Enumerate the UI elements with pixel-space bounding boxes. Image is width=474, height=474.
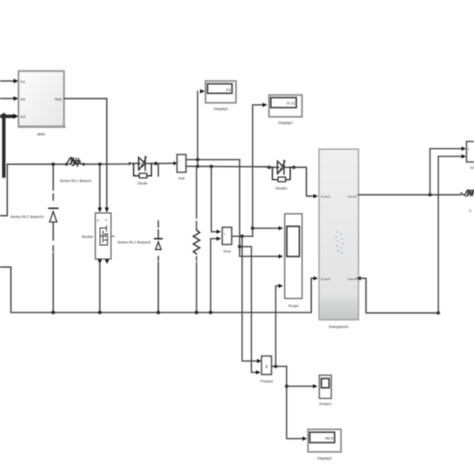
svg-text:Diode: Diode <box>138 182 148 186</box>
wire to Vmeas in1 <box>430 147 466 195</box>
wire voltage to Product in1 <box>242 236 261 363</box>
subsystem Subsystem1 <box>319 149 359 329</box>
wire Diode1 to Conn1 <box>294 167 318 198</box>
wire Vout in2 feed <box>211 237 221 313</box>
svg-text:Display1: Display1 <box>214 107 228 111</box>
wire mosfet drain <box>98 164 102 212</box>
wire In1 <box>0 79 19 83</box>
wire bottom rail <box>0 267 318 314</box>
svg-text:Product: Product <box>260 380 273 384</box>
display Display2 <box>269 95 302 125</box>
display Display1 <box>206 81 237 111</box>
wire In3 thick <box>0 114 19 176</box>
ANN block U1 <box>19 71 65 137</box>
svg-text:Iout: Iout <box>178 177 184 181</box>
svg-text:In3: In3 <box>21 115 26 119</box>
resistor load R <box>193 166 199 312</box>
svg-text:Diode1: Diode1 <box>276 187 288 191</box>
wire Vout in1 feed <box>211 167 221 234</box>
svg-text:Out1: Out1 <box>55 97 62 101</box>
wire Conn3 to right <box>359 193 462 196</box>
svg-text:462.8: 462.8 <box>325 437 333 441</box>
svg-text:Series RLC Branch2: Series RLC Branch2 <box>117 241 151 245</box>
svg-text:6.6: 6.6 <box>226 88 231 92</box>
product block Product <box>260 356 273 384</box>
diode D1 "Diode" <box>129 157 158 186</box>
node source-top <box>52 163 55 166</box>
svg-text:Scope1: Scope1 <box>319 402 332 406</box>
svg-text:Vs: Vs <box>470 166 474 170</box>
wire rail inductor to diode <box>84 163 129 165</box>
svg-text:Display3: Display3 <box>317 457 331 461</box>
transistor Mosfet <box>82 213 114 313</box>
svg-text:Conn3: Conn3 <box>348 194 357 198</box>
svg-text:C: C <box>469 209 472 213</box>
diode D2 "Diode1" <box>267 161 295 191</box>
svg-text:67.22: 67.22 <box>287 102 295 106</box>
display Display3 <box>308 429 341 460</box>
wire Product out <box>272 284 318 441</box>
current measurement Iout <box>177 155 267 181</box>
source branch (Series RLC Branch1) <box>10 164 57 312</box>
svg-text:In2: In2 <box>21 98 26 102</box>
svg-text:Vout: Vout <box>223 250 230 254</box>
scope Scope <box>285 214 302 308</box>
svg-text:Conn1: Conn1 <box>321 194 330 198</box>
svg-text:Series RLC Branch1: Series RLC Branch1 <box>10 215 44 219</box>
node Vout+ <box>210 165 213 168</box>
svg-text:Series RLC Branch: Series RLC Branch <box>60 179 92 183</box>
wire top rail left <box>0 164 66 216</box>
svg-text:ANN: ANN <box>37 133 45 137</box>
svg-text:In1: In1 <box>21 80 26 84</box>
svg-text:Subsystem1: Subsystem1 <box>329 325 349 329</box>
svg-text:Conn4: Conn4 <box>348 277 357 281</box>
svg-text:Scope: Scope <box>288 304 298 308</box>
wire In2 <box>0 96 19 100</box>
wire Conn4 to bottom right <box>356 154 466 314</box>
voltage measurement Vout <box>222 227 232 253</box>
wire current to Scope in2 / Product in2 <box>238 160 283 375</box>
wire Vout output <box>232 235 253 237</box>
scope Scope1 <box>319 375 332 406</box>
svg-text:Mosfet: Mosfet <box>82 235 93 239</box>
voltage measurement block right edge <box>467 142 474 171</box>
node voltage fanout <box>240 235 243 238</box>
svg-text:Display2: Display2 <box>278 121 292 125</box>
node mosfet-drain <box>98 163 101 166</box>
wire voltage to Display2 / Scope in1 <box>251 103 283 236</box>
svg-text:Conn2: Conn2 <box>321 277 330 281</box>
capacitor branch Series RLC Branch2 <box>117 164 162 313</box>
wire diode to Iout <box>156 161 177 165</box>
wire ANN Out1 to Mosfet gate <box>65 99 109 213</box>
wire Display1 feed <box>197 91 199 166</box>
inductor Series RLC Branch <box>60 158 92 183</box>
inductor right Series RLC Branch3 <box>461 190 474 213</box>
